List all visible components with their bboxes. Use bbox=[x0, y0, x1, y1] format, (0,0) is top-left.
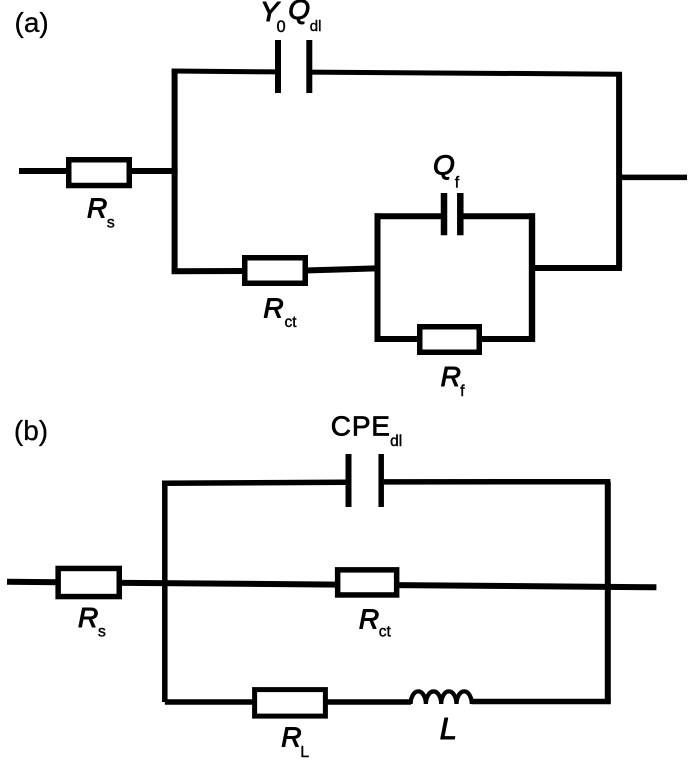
svg-text:R: R bbox=[263, 292, 283, 323]
svg-text:(a): (a) bbox=[15, 7, 49, 38]
svg-text:L: L bbox=[300, 744, 309, 761]
svg-text:R: R bbox=[441, 361, 461, 392]
svg-text:0: 0 bbox=[277, 18, 286, 36]
svg-text:R: R bbox=[87, 193, 107, 224]
svg-text:R: R bbox=[281, 722, 301, 753]
svg-text:Q: Q bbox=[433, 149, 455, 180]
svg-text:f: f bbox=[455, 175, 460, 192]
svg-text:(b): (b) bbox=[14, 415, 48, 446]
svg-text:s: s bbox=[107, 215, 115, 232]
svg-text:CPE: CPE bbox=[331, 411, 391, 442]
svg-text:R: R bbox=[78, 602, 98, 633]
svg-text:L: L bbox=[440, 711, 457, 746]
svg-text:f: f bbox=[460, 383, 465, 400]
svg-text:dl: dl bbox=[390, 433, 402, 450]
svg-text:s: s bbox=[98, 624, 106, 641]
svg-text:R: R bbox=[359, 603, 379, 634]
svg-text:Q: Q bbox=[288, 0, 310, 25]
svg-text:ct: ct bbox=[379, 624, 392, 641]
svg-text:ct: ct bbox=[285, 314, 298, 331]
svg-text:dl: dl bbox=[310, 18, 322, 35]
